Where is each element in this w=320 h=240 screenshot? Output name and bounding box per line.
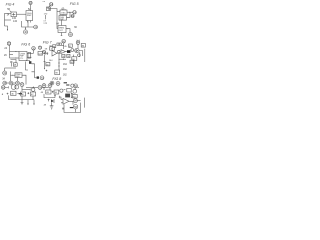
circled src 42 — [50, 81, 54, 85]
circled node 40 — [23, 30, 27, 34]
wires left group — [9, 95, 34, 99]
arrowhead reg out — [67, 28, 68, 29]
wire to node row — [32, 64, 35, 72]
circled node 68 — [69, 33, 73, 37]
leader 54 — [49, 6, 50, 7]
small box 28a — [13, 63, 17, 66]
wire — [35, 77, 37, 79]
svg-text:FIG 6: FIG 6 — [21, 42, 30, 46]
leader from 50 — [10, 11, 12, 13]
top ticks — [77, 40, 79, 41]
arrow down 3 — [33, 100, 35, 104]
link pump to reg — [61, 20, 63, 25]
diode solid — [51, 99, 54, 103]
box 42a — [30, 92, 35, 96]
pump box — [59, 16, 67, 21]
bottom loop — [64, 103, 81, 113]
arrow dash 48 — [17, 93, 18, 94]
ground 1 — [21, 103, 24, 105]
input wire 1 — [10, 51, 20, 53]
arrowhead — [69, 12, 70, 13]
stems — [44, 88, 50, 91]
svg-text:34: 34 — [2, 78, 5, 81]
circled label 14 — [73, 11, 76, 14]
circled src 1 — [3, 81, 7, 85]
wire rail to osc — [5, 12, 12, 14]
box 50a — [54, 90, 59, 94]
box 82 — [69, 44, 73, 47]
junction — [27, 92, 29, 94]
svg-text:134: 134 — [13, 20, 18, 23]
oscillator box 14 — [11, 12, 17, 17]
junction cross right — [59, 96, 61, 98]
circled 43 — [32, 88, 35, 91]
svg-text:CTL: CTL — [20, 58, 23, 60]
top ticks — [62, 9, 65, 10]
box 40a — [21, 92, 26, 96]
circled label 72 — [42, 50, 45, 53]
small box 56 — [53, 45, 56, 48]
circled 46b — [48, 84, 52, 88]
box 166 — [46, 62, 50, 66]
right drop wire — [69, 12, 71, 17]
arrowhead — [16, 58, 17, 59]
circled src 3 — [16, 81, 20, 85]
double circle meter — [11, 85, 16, 90]
left bracket wire — [26, 62, 29, 71]
stem pwm to src — [17, 77, 19, 81]
osc box — [60, 10, 67, 15]
circled 51 — [60, 89, 63, 92]
output — [69, 100, 73, 102]
tick left — [64, 89, 66, 91]
tick on rail — [58, 63, 60, 66]
circled 52a — [71, 84, 74, 87]
reg out wire — [66, 29, 70, 33]
ground mid — [50, 106, 54, 110]
svg-text:OUT: OUT — [59, 30, 64, 32]
circled src 80 — [62, 39, 66, 43]
stem to node 40 — [25, 27, 27, 29]
tick — [5, 86, 9, 88]
box 48a — [46, 90, 51, 94]
box 162a — [67, 50, 70, 53]
wire pump out — [67, 17, 71, 19]
junction — [7, 93, 9, 95]
circled src 84 — [76, 41, 80, 45]
box 150a — [67, 88, 71, 92]
box 16 — [50, 47, 55, 50]
input wire 2 — [10, 54, 14, 56]
tick — [72, 55, 74, 57]
link wire A2 to chain — [66, 51, 68, 53]
bottom wire under caps — [5, 67, 17, 69]
op-amp A3 — [63, 98, 69, 104]
wire pump pin — [27, 21, 29, 28]
svg-text:45: 45 — [64, 46, 67, 48]
bus continue — [42, 86, 49, 88]
tick — [78, 87, 80, 89]
main box controller — [19, 52, 27, 61]
op-amp A1 — [52, 50, 57, 56]
svg-text:OSC: OSC — [61, 12, 66, 14]
pin tick 2 — [30, 21, 32, 23]
svg-text:PMP: PMP — [60, 19, 65, 21]
svg-text:14: 14 — [7, 13, 10, 16]
box 94 — [62, 54, 65, 57]
circled 88 — [58, 50, 61, 53]
svg-text:PMP: PMP — [27, 15, 32, 17]
left rail lower — [10, 72, 12, 82]
circled label 70 — [38, 46, 41, 49]
svg-text:24: 24 — [4, 47, 7, 50]
left rail — [4, 13, 6, 26]
wire into osc — [57, 10, 60, 12]
svg-text:170: 170 — [44, 13, 48, 15]
wire between sources — [7, 82, 16, 84]
wire rail stub — [5, 19, 12, 21]
circled src 2 — [9, 81, 13, 85]
right rail frag — [84, 98, 86, 108]
circled src 44 — [56, 82, 60, 86]
stem from circled 10 into charge pump — [29, 5, 31, 11]
terminal block 28 — [28, 53, 31, 59]
circled src top — [20, 83, 24, 87]
wire battery to stack — [50, 9, 58, 29]
pump bottom pin wires — [22, 21, 34, 27]
svg-text:98: 98 — [55, 73, 58, 75]
wire into pwm — [11, 74, 16, 76]
svg-text:48: 48 — [41, 92, 44, 94]
svg-text:58: 58 — [45, 49, 48, 51]
out wire — [79, 51, 83, 56]
circled label 62 — [71, 15, 74, 18]
circled node 2 — [40, 76, 44, 80]
tri A2 — [61, 50, 66, 54]
arrowhead — [13, 75, 14, 76]
rail down — [9, 52, 11, 59]
solid tap — [37, 76, 39, 78]
pin ticks — [44, 52, 48, 55]
svg-text:26: 26 — [4, 54, 7, 57]
tick — [62, 107, 64, 109]
mid rail — [44, 55, 46, 68]
arrowhead — [68, 17, 69, 18]
dash label — [64, 82, 67, 84]
svg-text:50: 50 — [7, 7, 10, 11]
svg-text:172: 172 — [43, 23, 47, 25]
stem — [9, 45, 11, 51]
circled 54a — [74, 84, 78, 88]
svg-text:64: 64 — [56, 23, 59, 26]
label 52 dash — [70, 107, 73, 109]
right rail — [84, 49, 86, 62]
tri small — [71, 93, 75, 98]
pin tick 1 — [27, 21, 29, 23]
circled 54 — [73, 99, 77, 103]
junction tick — [33, 87, 35, 89]
out wire bottom — [27, 56, 32, 58]
arrowhead — [30, 53, 31, 54]
right top marks — [66, 84, 69, 86]
lower bus wire — [26, 86, 38, 88]
svg-text:a: a — [2, 93, 4, 96]
drop from box — [21, 96, 23, 103]
circled label 30 — [32, 47, 36, 51]
circled 90 — [71, 49, 74, 52]
stub below reg — [61, 33, 63, 36]
svg-text:FIG 4: FIG 4 — [6, 2, 15, 6]
mid circles — [42, 84, 46, 88]
junction — [52, 91, 54, 93]
charge pump box U1 — [26, 11, 33, 21]
cap stem — [10, 63, 12, 67]
arrow down from rail — [5, 26, 8, 30]
stub box 42a to bus — [32, 96, 34, 100]
svg-text:164: 164 — [63, 64, 68, 66]
regulator box — [58, 26, 66, 33]
node 10 circled label — [29, 1, 32, 4]
link osc to pump — [62, 15, 64, 16]
inputs — [61, 97, 63, 103]
drop — [73, 101, 76, 112]
tick 170 — [44, 15, 46, 19]
box 160 — [72, 57, 77, 61]
box 150b — [73, 94, 78, 98]
circled label 22 — [7, 42, 10, 45]
box 46 — [11, 91, 16, 95]
left rail — [58, 53, 60, 70]
rail junction tick — [44, 61, 46, 63]
diode cluster — [48, 99, 50, 102]
input bus wire — [57, 44, 64, 46]
svg-text:FIG 5: FIG 5 — [70, 2, 79, 6]
pwm box — [15, 73, 22, 78]
stem — [63, 43, 65, 49]
box 96b — [67, 54, 70, 57]
op-amp circle 92 — [75, 48, 79, 52]
drop wires — [73, 52, 79, 66]
battery box — [46, 7, 50, 11]
tick — [54, 95, 56, 97]
wire osc to pump — [17, 13, 27, 15]
left: circled 40 — [1, 86, 5, 90]
box 124 — [38, 52, 43, 56]
pwm out wire — [22, 75, 26, 84]
cap 36 plates — [10, 62, 12, 63]
wire to circled 14 — [67, 11, 73, 13]
input wire 3 — [10, 57, 20, 59]
svg-text:66: 66 — [74, 27, 77, 29]
svg-text:164: 164 — [49, 60, 53, 62]
arrow down 2 — [27, 100, 29, 104]
right box 86 — [81, 44, 85, 48]
top small wire — [11, 60, 17, 64]
svg-text:48: 48 — [44, 105, 47, 107]
circled 56a — [73, 89, 77, 93]
drop — [51, 103, 53, 106]
stem 30 — [33, 50, 35, 53]
junction — [29, 89, 31, 91]
circled node 12 — [34, 25, 38, 29]
circled label 54 — [50, 3, 53, 6]
svg-text:FIG 7: FIG 7 — [43, 40, 53, 44]
arrow dash — [62, 59, 63, 60]
box bottom wire — [26, 60, 30, 63]
opamp out wire — [57, 52, 61, 54]
circled 56 — [73, 105, 77, 109]
svg-text:FIG 8: FIG 8 — [52, 77, 61, 81]
stem — [21, 87, 23, 92]
wires mid — [44, 94, 55, 98]
stem to circle 32 — [4, 68, 6, 71]
wire right — [22, 89, 30, 91]
rail arrowhead — [44, 68, 45, 70]
wire fig6 to node — [32, 72, 35, 78]
junction cross — [46, 70, 48, 72]
bus arrow wire — [59, 58, 66, 60]
box 96 — [70, 60, 74, 63]
small circle right of 160 — [78, 54, 81, 57]
svg-text:162: 162 — [63, 69, 68, 71]
out wire top — [27, 52, 34, 54]
circled label 32 — [3, 71, 7, 75]
circled node 76 — [38, 86, 42, 90]
input header boxes — [57, 43, 59, 45]
arrowhead — [16, 51, 17, 52]
osc glyph — [12, 13, 15, 16]
sense cap (solid) — [29, 61, 31, 64]
svg-text:162: 162 — [63, 75, 68, 77]
stem 84 — [77, 44, 79, 48]
wire 54 to rail — [77, 100, 80, 102]
stem 54a — [74, 88, 76, 90]
box 98 — [55, 70, 60, 75]
svg-text:17: 17 — [43, 20, 46, 22]
svg-text:US: US — [43, 1, 46, 3]
dark box 150 — [65, 94, 70, 98]
